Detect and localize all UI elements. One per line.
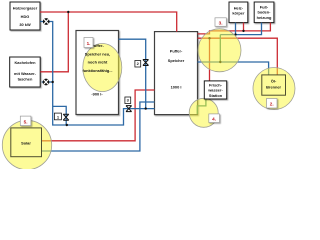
label 3.: [215, 18, 226, 27]
text radiator: [232, 6, 245, 16]
svg-text:heizung: heizung: [257, 15, 272, 20]
node junction blue valve2: [145, 107, 147, 109]
stove box Kachelofen: [10, 57, 41, 87]
label 2.: [267, 99, 278, 109]
wire red radiator drop: [243, 23, 245, 31]
pump kachelofen: [43, 79, 49, 85]
svg-text:Brenner: Brenner: [266, 85, 281, 90]
valve V3 id box: [125, 97, 131, 104]
floor heating box Fussbodenheizung: [254, 2, 274, 23]
text freshwater station: [207, 83, 223, 98]
svg-text:noch nicht: noch nicht: [88, 60, 108, 65]
wire blue valve 1 branch: [53, 106, 66, 125]
node junction red main: [67, 11, 69, 13]
svg-text:4.: 4.: [212, 117, 216, 122]
svg-text:mit Wasser-: mit Wasser-: [14, 71, 37, 76]
valve V2 id box: [135, 61, 141, 68]
node junction red radiator: [242, 30, 244, 32]
svg-text:HDG: HDG: [21, 14, 30, 19]
node junction red freshwater: [208, 37, 210, 39]
highlight circle oil burner: [253, 68, 295, 110]
valve V3: [126, 106, 132, 112]
node junction blue bypass: [66, 124, 68, 126]
wire blue tank2 to oil burner: [198, 62, 269, 75]
svg-text:Öl-: Öl-: [271, 79, 277, 84]
svg-text:Kachelofen: Kachelofen: [15, 60, 37, 65]
wire red tank2 to oil burner: [198, 38, 278, 75]
valve V1: [63, 114, 69, 120]
svg-text:1000 l: 1000 l: [171, 85, 182, 90]
svg-text:Holzvergaser: Holzvergaser: [13, 6, 38, 11]
valve V1 id box: [54, 113, 61, 120]
svg-text:körper: körper: [232, 11, 245, 16]
label 4.: [209, 114, 220, 123]
text oil burner: [266, 79, 281, 90]
wire red solar to tank2: [42, 90, 155, 141]
wire red boiler supply to tank2 top: [40, 12, 177, 32]
svg-text:2.: 2.: [270, 102, 274, 107]
svg-text:wasser-: wasser-: [207, 88, 223, 93]
wire red drop to fresh water station: [209, 38, 211, 81]
label 1.: [84, 38, 93, 48]
wire teal fresh water to tank2: [197, 99, 206, 114]
svg-text:5.: 5.: [24, 119, 28, 124]
oil burner box: [262, 75, 286, 95]
wire teal heating return to main blue: [219, 35, 221, 62]
radiator box Heizkoerper: [229, 2, 248, 23]
highlight circle tank1: [83, 44, 122, 92]
text boiler: [13, 6, 38, 28]
text stove: [14, 60, 37, 82]
svg-text:Puffer-: Puffer-: [170, 49, 183, 54]
wire blue boiler return via valve bypass: [40, 22, 154, 126]
buffer tank 2 (1000 l): [155, 32, 198, 115]
text floor heating: [257, 5, 272, 20]
node junction blue radiator return: [234, 33, 236, 35]
wire blue heating circuits return: [220, 23, 261, 35]
boiler box Holzvergaser: [10, 2, 40, 30]
wire red branch to Kachelofen: [40, 12, 68, 72]
highlight circle solar: [2, 120, 51, 169]
fresh water station box: [204, 81, 226, 99]
solar panel box: [11, 128, 42, 157]
highlight circle freshwater: [189, 98, 218, 127]
svg-text:Station: Station: [209, 93, 223, 98]
wire blue tank1 to tank2 via valve 2: [119, 39, 146, 108]
svg-text:Speicher neu,: Speicher neu,: [85, 52, 111, 57]
node junction blue kachelofen: [52, 81, 54, 83]
svg-text:30 kW: 30 kW: [19, 22, 31, 27]
wire red tank2 to heating circuits: [198, 23, 271, 34]
svg-text:-900 l-: -900 l-: [91, 91, 103, 96]
label 5.: [20, 116, 31, 126]
buffer tank 1 (900 l): [76, 31, 119, 115]
pump boiler: [43, 19, 49, 25]
text solar: [21, 141, 31, 146]
svg-text:funktionsfähig...: funktionsfähig...: [82, 68, 112, 73]
valve V2: [143, 60, 149, 66]
svg-text:1.: 1.: [87, 41, 91, 46]
highlight circle distribution: [198, 29, 241, 72]
svg-text:taschen: taschen: [18, 77, 33, 82]
text tank2: [168, 49, 185, 90]
svg-text:Speicher: Speicher: [168, 58, 185, 63]
svg-text:3.: 3.: [219, 21, 223, 26]
svg-text:Solar: Solar: [21, 141, 31, 146]
text tank1: [82, 43, 112, 96]
node junction teal on blue main: [219, 61, 221, 63]
wire blue solar return: [42, 102, 155, 151]
wire blue Kachelofen pump connection: [42, 81, 53, 83]
